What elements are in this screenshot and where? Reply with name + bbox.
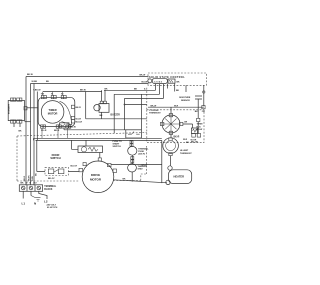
svg-text:BU: BU <box>36 172 38 176</box>
svg-text:BK: BK <box>176 90 180 92</box>
svg-text:HEATER: HEATER <box>174 175 185 179</box>
svg-text:BK-R: BK-R <box>24 175 26 181</box>
svg-text:R: R <box>30 183 32 185</box>
svg-text:SWITCH: SWITCH <box>113 146 122 148</box>
svg-text:L2: L2 <box>44 200 48 204</box>
svg-text:W-LR: W-LR <box>76 118 82 120</box>
svg-text:BK-W: BK-W <box>151 106 157 108</box>
svg-text:BK: BK <box>123 179 127 181</box>
svg-text:MOISTURE: MOISTURE <box>179 97 191 99</box>
svg-text:MOTOR: MOTOR <box>48 111 58 115</box>
svg-text:BK-W: BK-W <box>27 74 33 76</box>
svg-text:TIMER: TIMER <box>49 108 57 112</box>
svg-text:BK: BK <box>177 82 181 84</box>
svg-text:BK-R: BK-R <box>54 130 60 132</box>
svg-text:BLOCK: BLOCK <box>44 189 53 191</box>
svg-text:BK-W: BK-W <box>80 90 86 92</box>
svg-text:HARNESS: HARNESS <box>7 104 10 115</box>
svg-text:L1: L1 <box>22 202 26 206</box>
svg-text:BK-R: BK-R <box>76 107 82 109</box>
svg-text:BK-W: BK-W <box>140 74 146 76</box>
svg-text:OR-W: OR-W <box>197 129 203 131</box>
svg-text:STAT: STAT <box>138 167 144 170</box>
svg-text:MOTOR: MOTOR <box>90 178 102 182</box>
svg-text:BU-LR: BU-LR <box>76 122 83 124</box>
svg-text:BK-OR: BK-OR <box>191 142 198 144</box>
svg-text:W: W <box>26 183 28 185</box>
svg-text:BLK: BLK <box>197 126 202 128</box>
svg-text:DRIVE: DRIVE <box>91 173 100 177</box>
svg-text:OR: OR <box>184 122 188 124</box>
svg-text:BU: BU <box>46 81 50 83</box>
svg-text:SENSOR: SENSOR <box>181 100 190 102</box>
svg-text:W-BK: W-BK <box>29 175 31 181</box>
svg-text:START: START <box>113 143 121 146</box>
svg-text:BU-GY: BU-GY <box>71 166 78 168</box>
svg-text:60 HZ 1PH: 60 HZ 1PH <box>47 207 58 209</box>
svg-text:BU: BU <box>34 183 38 185</box>
svg-text:W-R: W-R <box>174 106 179 108</box>
svg-text:T-BU-W: T-BU-W <box>33 90 41 92</box>
svg-text:BK: BK <box>21 183 25 185</box>
svg-text:N: N <box>34 202 36 206</box>
svg-text:BUZZER: BUZZER <box>111 114 121 116</box>
svg-text:BK: BK <box>100 115 104 117</box>
svg-text:BK: BK <box>195 111 199 113</box>
svg-text:OR: OR <box>202 111 206 113</box>
svg-text:W-R: W-R <box>183 139 188 141</box>
svg-text:TERMINAL: TERMINAL <box>44 185 56 188</box>
svg-text:BK-R: BK-R <box>174 137 180 139</box>
svg-text:THERMOST: THERMOST <box>180 153 192 155</box>
svg-text:TERM: TERM <box>197 124 203 126</box>
svg-text:W-BK: W-BK <box>32 81 38 83</box>
svg-text:THERMOST: THERMOST <box>149 113 161 115</box>
svg-text:BK: BK <box>186 142 190 144</box>
svg-text:SWITCH: SWITCH <box>50 156 60 160</box>
svg-text:BK: BK <box>19 130 23 132</box>
svg-text:BU-W: BU-W <box>70 126 76 128</box>
svg-text:BK-GY: BK-GY <box>48 178 55 180</box>
svg-text:R-BU: R-BU <box>32 175 34 181</box>
svg-text:BU-W: BU-W <box>142 81 148 83</box>
svg-text:1 2 3 4 5: 1 2 3 4 5 <box>154 81 163 84</box>
svg-text:(306 F): (306 F) <box>138 153 145 155</box>
